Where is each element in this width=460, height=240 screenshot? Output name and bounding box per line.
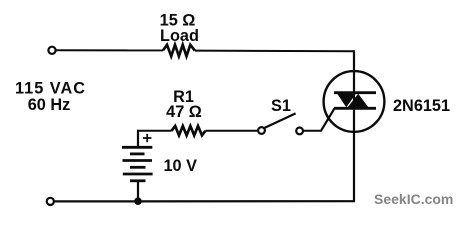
svg-text:10 V: 10 V <box>164 157 198 175</box>
wire vertical MT2-to-MT1 through triac <box>353 50 355 201</box>
battery negative stub <box>137 181 139 202</box>
wire R1 to battery <box>137 130 172 132</box>
svg-text:S1: S1 <box>271 97 291 115</box>
battery plate short 3 (negative) <box>130 179 146 182</box>
battery plate long 3 <box>123 173 153 176</box>
triac right triangle <box>348 94 369 107</box>
gate lead diagonal <box>321 108 335 131</box>
terminal top-left (115 VAC line) <box>48 47 55 54</box>
svg-text:115 VAC: 115 VAC <box>15 79 86 97</box>
svg-text:2N6151: 2N6151 <box>393 97 450 115</box>
wire top-left segment <box>56 49 163 51</box>
switch S1 right contact <box>296 127 303 134</box>
svg-text:47 Ω: 47 Ω <box>166 103 202 121</box>
battery plate short 1 <box>130 152 145 155</box>
triac Q1 body circle <box>324 71 385 132</box>
terminal bottom-left (115 VAC line) <box>47 198 54 205</box>
svg-text:SeekIC.com: SeekIC.com <box>374 191 453 207</box>
battery plus label <box>143 134 151 142</box>
battery plate long 2 <box>123 159 153 162</box>
wire bottom segment <box>54 200 355 202</box>
triac left triangle <box>337 94 355 107</box>
switch S1 blade <box>264 113 295 128</box>
wire gate to switch <box>303 130 322 132</box>
wire top-right segment <box>195 50 354 53</box>
wire switch to R1 <box>205 130 258 132</box>
resistor Load 15 ohm <box>163 45 195 56</box>
svg-text:Load: Load <box>160 27 199 45</box>
svg-text:60 Hz: 60 Hz <box>28 96 71 114</box>
junction battery to bottom wire <box>134 197 142 205</box>
switch S1 left contact <box>258 127 265 134</box>
battery plate long 1 <box>122 146 152 149</box>
battery plate short 2 <box>130 166 146 169</box>
resistor R1 47 ohm <box>172 126 206 135</box>
triac bottom bar MT1 <box>334 107 376 110</box>
triac top bar MT2 <box>334 91 376 94</box>
battery positive stub <box>137 130 139 146</box>
